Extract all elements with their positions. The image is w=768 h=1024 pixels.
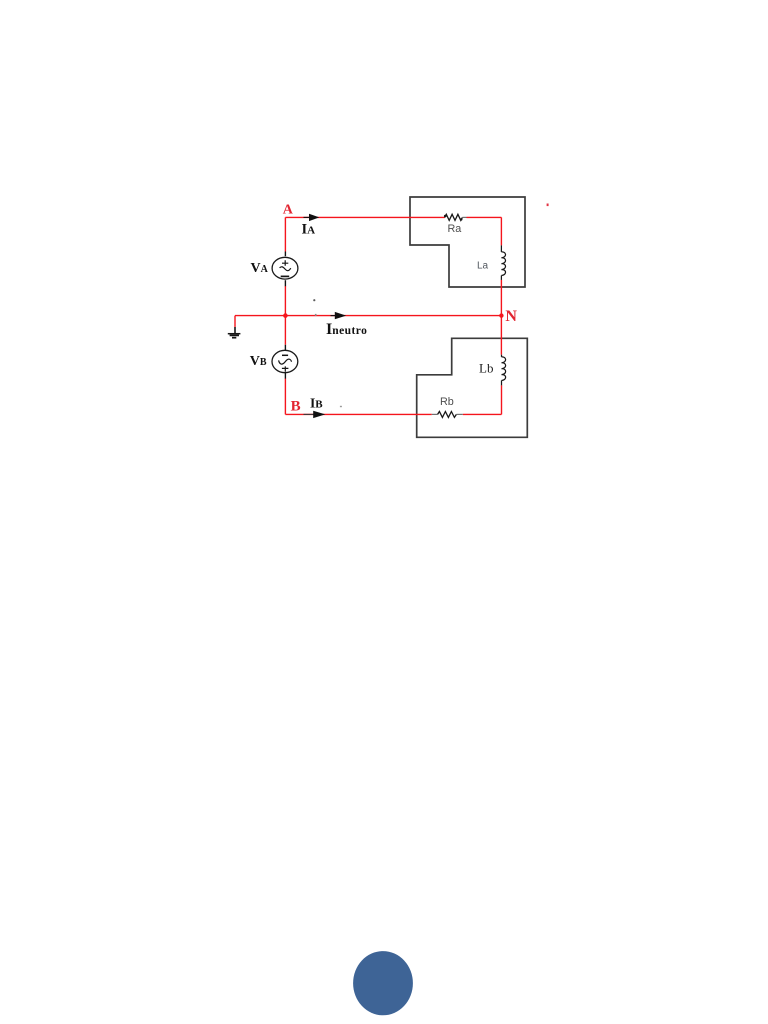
resistor Ra <box>445 214 463 220</box>
svg-text:A: A <box>283 203 294 218</box>
svg-text:B: B <box>291 399 301 415</box>
stray gray dot <box>313 299 315 301</box>
svg-text:Rb: Rb <box>440 396 454 408</box>
resistor Rb <box>432 413 438 415</box>
svg-text:VA: VA <box>251 261 269 276</box>
svg-text:IA: IA <box>302 221 316 237</box>
wire phase B horizontal left (node B to Rb) <box>285 413 431 415</box>
arrow IB <box>304 413 314 415</box>
source VA <box>272 252 298 287</box>
load box top (Ra,La enclosure) <box>410 197 525 287</box>
junction dot at VA/VB/neutral <box>283 313 288 318</box>
svg-text:IB: IB <box>310 395 323 410</box>
stray gray tick <box>340 406 342 407</box>
wire phase A horizontal (node A to Ra) <box>285 216 444 218</box>
arrow IA <box>304 216 310 218</box>
stray red speck <box>547 204 549 207</box>
source VB <box>272 345 298 379</box>
stray gray tick on neutral wire <box>315 314 317 316</box>
wire La to node N to Lb <box>500 280 502 355</box>
inductor La <box>501 245 505 280</box>
junction dot at node N <box>499 313 503 317</box>
ground <box>228 327 241 338</box>
inductor Lb <box>502 355 506 386</box>
arrow Ineutro <box>331 315 336 317</box>
wire neutral horizontal <box>235 315 501 317</box>
wire node A vertical down to VA <box>284 217 286 251</box>
wire ground drop <box>234 316 236 327</box>
wire phase B horizontal right (corner to Rb) <box>463 413 502 415</box>
blue circle decoration <box>353 951 413 1015</box>
svg-text:Lb: Lb <box>479 361 493 376</box>
svg-text:Ra: Ra <box>448 223 462 235</box>
svg-text:VB: VB <box>250 354 267 369</box>
svg-text:N: N <box>505 308 517 325</box>
svg-text:La: La <box>477 261 489 272</box>
wire right vertical upper (corner to La) <box>500 217 502 245</box>
wire Ra to top-right corner <box>467 216 502 218</box>
wire VB bottom to node B corner <box>284 378 286 414</box>
wire VA bottom to junction to VB top <box>284 286 286 345</box>
wire Lb to bottom-right corner <box>501 385 503 414</box>
load box bottom (Rb,Lb enclosure) <box>417 338 528 437</box>
